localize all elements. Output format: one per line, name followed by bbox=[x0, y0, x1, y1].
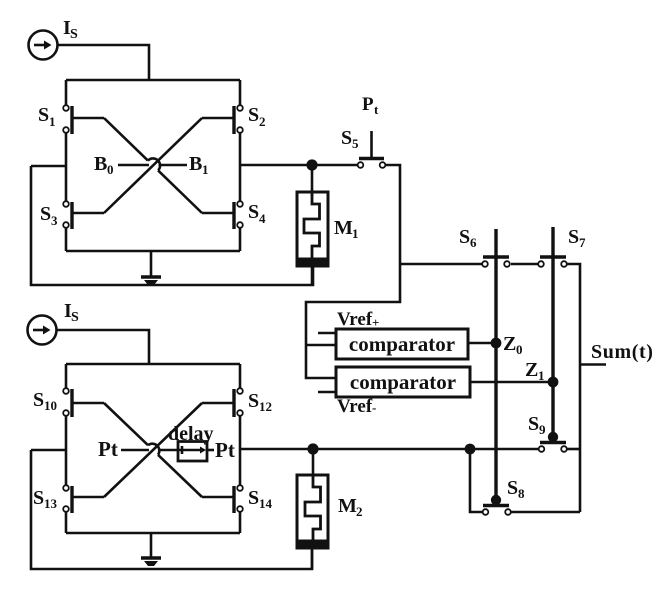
svg-text:P: P bbox=[362, 94, 374, 115]
wire bridge2 right output to M2 node bbox=[240, 448, 313, 451]
wire chain branch to comparator1 minus input bbox=[306, 344, 336, 347]
svg-text:delay: delay bbox=[168, 423, 214, 445]
svg-text:t: t bbox=[374, 102, 379, 117]
wire from IS2 to top rail 2 bbox=[56, 330, 149, 364]
svg-text:Sum(t): Sum(t) bbox=[591, 341, 654, 363]
switch S9 bbox=[539, 432, 567, 452]
svg-text:S: S bbox=[248, 390, 259, 412]
comparator U2 bbox=[336, 367, 470, 397]
wire bus2 left down and under M2 bbox=[31, 450, 312, 569]
svg-text:8: 8 bbox=[518, 486, 525, 501]
comparator U1 bbox=[336, 329, 468, 359]
vertical line B Z1 to S9 bbox=[551, 382, 554, 434]
svg-text:Vref: Vref bbox=[337, 396, 373, 417]
wire between S6 and S7 bbox=[511, 263, 538, 266]
node Z0 bbox=[491, 338, 502, 349]
switch S7 bbox=[538, 227, 567, 380]
svg-text:13: 13 bbox=[44, 496, 58, 511]
svg-text:6: 6 bbox=[470, 235, 477, 250]
input stub Vref+ bbox=[318, 332, 336, 335]
svg-text:2: 2 bbox=[356, 504, 363, 519]
switch S3 bbox=[63, 201, 104, 229]
node Z1 bbox=[548, 377, 559, 388]
svg-text:S: S bbox=[38, 104, 49, 126]
vertical line A S6 to S8 bbox=[494, 343, 497, 497]
svg-text:S: S bbox=[248, 201, 259, 223]
svg-text:Pt: Pt bbox=[215, 438, 235, 462]
svg-text:comparator: comparator bbox=[349, 332, 455, 356]
wire M1 node to S5 bbox=[312, 164, 358, 167]
current source IS2 bbox=[28, 316, 57, 345]
control diagonal S2-S3 bbox=[104, 118, 202, 213]
svg-text:B: B bbox=[94, 153, 107, 175]
svg-text:0: 0 bbox=[107, 162, 114, 177]
control diagonal S10-S14 with hop bbox=[104, 403, 202, 497]
wire lower row M2node to S9 bbox=[313, 448, 538, 451]
svg-text:S: S bbox=[70, 27, 78, 42]
svg-text:1: 1 bbox=[352, 226, 359, 241]
svg-text:Z: Z bbox=[503, 333, 516, 355]
wire right vertical lower (S14 to bottom rail2) bbox=[239, 512, 242, 533]
wire comparator1 output to Z0 bbox=[468, 342, 496, 345]
node junction lower row bbox=[465, 444, 476, 455]
wire left vertical upper (rail2 to S10) bbox=[65, 364, 68, 388]
wire S8 right to line C bbox=[511, 511, 580, 514]
svg-text:S: S bbox=[459, 226, 470, 248]
memristor M2 bbox=[296, 449, 330, 569]
wire left vertical (S10 to junction to S13) bbox=[65, 416, 68, 487]
switch S10 bbox=[63, 388, 104, 417]
wire right vertical lower (S4 to bottom rail) bbox=[239, 228, 242, 251]
control diagonal S1-S4 with hop bbox=[104, 118, 202, 213]
wire S7 right to output line C bbox=[567, 264, 580, 512]
wire bridge1 right output to M1 node bbox=[240, 164, 312, 167]
switch S1 bbox=[63, 105, 104, 134]
switch S6 bbox=[482, 229, 510, 343]
svg-text:S: S bbox=[33, 389, 44, 411]
switch S4 bbox=[202, 201, 243, 229]
svg-text:1: 1 bbox=[538, 368, 545, 383]
svg-text:+: + bbox=[372, 315, 379, 330]
ground 2 bbox=[141, 533, 161, 566]
svg-text:S: S bbox=[528, 413, 539, 435]
svg-text:-: - bbox=[372, 400, 376, 415]
svg-text:Pt: Pt bbox=[98, 437, 118, 461]
node B0 B1 stubs bbox=[118, 164, 187, 167]
wire left vertical upper (rail to S1) bbox=[65, 80, 68, 105]
wire S5 right down to comparator chain bbox=[306, 165, 400, 378]
switch S14 bbox=[202, 485, 243, 513]
svg-text:5: 5 bbox=[352, 136, 359, 151]
svg-text:S: S bbox=[40, 203, 51, 225]
wire bridge2 left output to bus bbox=[31, 449, 66, 452]
svg-text:comparator: comparator bbox=[350, 370, 456, 394]
svg-text:S: S bbox=[33, 487, 44, 509]
svg-text:1: 1 bbox=[202, 162, 209, 177]
svg-text:S: S bbox=[341, 127, 352, 149]
delay element bbox=[178, 442, 214, 462]
svg-text:Z: Z bbox=[525, 359, 538, 381]
wire bottom rail bridge 2 bbox=[66, 532, 240, 535]
wire right vertical (S12 to junction to S14) bbox=[239, 416, 242, 487]
svg-text:1: 1 bbox=[49, 114, 56, 129]
control diagonal S12-S13 bbox=[104, 403, 202, 497]
ground 1 bbox=[141, 251, 161, 285]
svg-text:S: S bbox=[248, 104, 259, 126]
wire left vertical lower (S13 to bottom rail2) bbox=[65, 512, 68, 533]
switch S8 bbox=[483, 495, 511, 515]
svg-text:9: 9 bbox=[539, 422, 546, 437]
wire right vertical upper (rail2 to S12) bbox=[239, 364, 242, 388]
switch S13 bbox=[63, 485, 104, 513]
switch S5 bbox=[358, 131, 386, 168]
svg-text:14: 14 bbox=[259, 496, 273, 511]
node M2 top junction bbox=[307, 443, 318, 454]
switch S12 bbox=[202, 388, 243, 417]
svg-text:M: M bbox=[334, 217, 353, 239]
wire left vertical (S1 to junction to S3) bbox=[65, 133, 68, 203]
node Pt stubs bbox=[121, 449, 178, 452]
svg-text:2: 2 bbox=[259, 114, 266, 129]
node M1 top junction bbox=[306, 159, 317, 170]
wire from IS1 to top rail bbox=[57, 45, 149, 80]
svg-text:S: S bbox=[507, 477, 518, 499]
wire top rail bridge 1 bbox=[66, 79, 240, 82]
wire S9 right to line C bbox=[567, 448, 580, 451]
wire top rail bridge 2 bbox=[66, 363, 240, 366]
memristor M1 bbox=[296, 165, 330, 285]
wire left vertical lower (S3 to bottom rail) bbox=[65, 228, 68, 251]
wire comparator2 output to Z1 bbox=[470, 381, 554, 384]
input stub Vref- bbox=[318, 391, 336, 394]
wire bottom rail bridge 1 bbox=[66, 250, 240, 253]
svg-text:3: 3 bbox=[51, 213, 58, 228]
svg-text:B: B bbox=[189, 153, 202, 175]
stub Sum(t) bbox=[580, 363, 606, 366]
wire bus left down and under M1 bbox=[31, 166, 313, 285]
svg-text:S: S bbox=[71, 310, 79, 325]
svg-text:S: S bbox=[568, 226, 579, 248]
wire right vertical (S2 to junction to S4) bbox=[239, 133, 242, 203]
svg-text:Vref: Vref bbox=[337, 309, 373, 330]
svg-text:4: 4 bbox=[259, 211, 266, 226]
svg-text:M: M bbox=[338, 495, 357, 517]
wire junction down to S8 bbox=[470, 449, 483, 512]
svg-text:12: 12 bbox=[259, 399, 272, 414]
svg-text:7: 7 bbox=[579, 235, 586, 250]
svg-text:0: 0 bbox=[516, 342, 523, 357]
wire right vertical upper (rail to S2) bbox=[239, 80, 242, 105]
wire bridge1 left output to bus bbox=[31, 165, 66, 168]
wire S6 row from chain bbox=[400, 263, 483, 266]
svg-text:S: S bbox=[248, 487, 259, 509]
switch S2 bbox=[202, 105, 243, 134]
current source IS1 bbox=[29, 31, 58, 60]
svg-text:10: 10 bbox=[44, 398, 57, 413]
